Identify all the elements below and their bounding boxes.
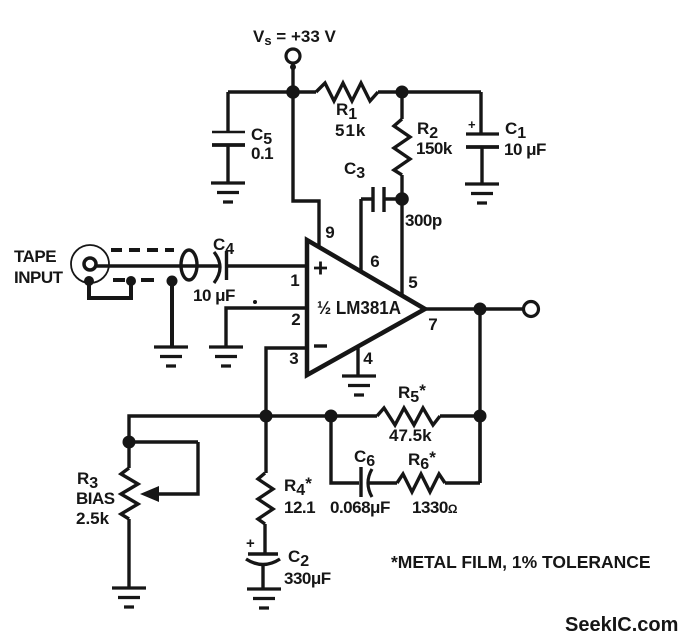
svg-text:C2: C2 bbox=[288, 547, 309, 570]
svg-text:1330Ω: 1330Ω bbox=[412, 498, 458, 517]
svg-text:300p: 300p bbox=[405, 211, 442, 230]
svg-text:C6: C6 bbox=[354, 447, 375, 470]
svg-text:9: 9 bbox=[325, 223, 334, 242]
svg-text:47.5k: 47.5k bbox=[389, 426, 432, 445]
svg-text:0.068μF: 0.068μF bbox=[330, 498, 390, 517]
svg-text:1: 1 bbox=[290, 271, 299, 290]
svg-text:6: 6 bbox=[370, 252, 379, 271]
svg-text:INPUT: INPUT bbox=[14, 268, 64, 287]
svg-text:*METAL FILM, 1% TOLERANCE: *METAL FILM, 1% TOLERANCE bbox=[391, 552, 651, 572]
svg-text:BIAS: BIAS bbox=[76, 489, 115, 508]
svg-text:R6*: R6* bbox=[408, 448, 436, 473]
svg-text:R1: R1 bbox=[336, 100, 357, 123]
svg-text:R5*: R5* bbox=[398, 381, 426, 406]
svg-text:51k: 51k bbox=[335, 121, 366, 140]
svg-text:+: + bbox=[468, 117, 476, 132]
svg-text:10 μF: 10 μF bbox=[504, 140, 546, 159]
svg-text:150k: 150k bbox=[416, 139, 453, 158]
svg-text:2: 2 bbox=[291, 310, 300, 329]
svg-text:4: 4 bbox=[363, 349, 373, 368]
svg-text:SeekIC.com: SeekIC.com bbox=[565, 614, 678, 636]
svg-text:0.1: 0.1 bbox=[251, 144, 273, 163]
svg-text:5: 5 bbox=[408, 273, 417, 292]
svg-text:C1: C1 bbox=[505, 119, 526, 142]
svg-text:TAPE: TAPE bbox=[14, 247, 56, 266]
svg-text:½ LM381A: ½ LM381A bbox=[317, 298, 401, 318]
svg-text:7: 7 bbox=[428, 315, 437, 334]
svg-text:R4*: R4* bbox=[284, 474, 312, 499]
svg-text:C3: C3 bbox=[344, 159, 365, 182]
svg-text:Vs = +33 V: Vs = +33 V bbox=[253, 27, 337, 48]
svg-text:+: + bbox=[246, 535, 255, 552]
svg-text:12.1: 12.1 bbox=[284, 498, 315, 517]
svg-text:330μF: 330μF bbox=[284, 569, 331, 588]
svg-text:10 μF: 10 μF bbox=[193, 286, 235, 305]
svg-text:3: 3 bbox=[289, 349, 298, 368]
svg-text:2.5k: 2.5k bbox=[76, 509, 110, 528]
